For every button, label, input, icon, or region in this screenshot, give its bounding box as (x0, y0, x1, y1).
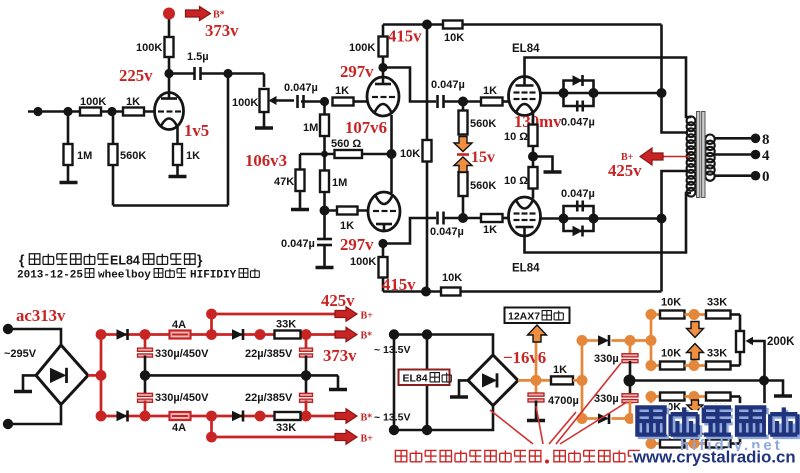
svg-text:33K: 33K (707, 348, 727, 360)
svg-text:0.047µ: 0.047µ (561, 117, 595, 129)
svg-text:4A: 4A (172, 422, 186, 434)
svg-text:0.047µ: 0.047µ (284, 82, 318, 94)
svg-text:B+: B+ (361, 434, 374, 445)
svg-text:0: 0 (762, 169, 770, 185)
svg-text:225v: 225v (119, 66, 153, 85)
svg-text:EL84: EL84 (512, 43, 540, 55)
svg-text:425v: 425v (321, 291, 355, 310)
svg-text:22µ/385V: 22µ/385V (245, 348, 293, 360)
svg-text:560K: 560K (120, 150, 146, 162)
svg-text:12AX7: 12AX7 (508, 311, 540, 323)
svg-text:wheelboy: wheelboy (98, 270, 151, 282)
svg-text:EL84: EL84 (512, 263, 540, 275)
svg-text:330µ: 330µ (594, 393, 619, 405)
svg-text:330µ: 330µ (594, 353, 619, 365)
svg-text:100K: 100K (350, 256, 376, 268)
svg-text:1M: 1M (303, 122, 318, 134)
svg-text:0.047µ: 0.047µ (281, 238, 315, 250)
svg-text:2013-12-25: 2013-12-25 (17, 270, 83, 282)
svg-text:~ 13.5V: ~ 13.5V (374, 344, 411, 356)
svg-text:ac313v: ac313v (16, 306, 66, 325)
svg-text:0.047µ: 0.047µ (431, 79, 465, 91)
svg-text:~295V: ~295V (4, 348, 37, 360)
svg-text:33K: 33K (276, 319, 296, 331)
svg-text:EL84: EL84 (403, 373, 428, 385)
svg-text:1K: 1K (553, 364, 567, 376)
svg-text:~ 13.5V: ~ 13.5V (374, 412, 411, 424)
svg-text:10K: 10K (400, 148, 420, 160)
svg-text:425v: 425v (608, 161, 642, 180)
svg-text:297v: 297v (340, 235, 374, 254)
svg-text:107v6: 107v6 (345, 118, 387, 137)
svg-text:1K: 1K (186, 150, 200, 162)
svg-text:−16v6: −16v6 (503, 348, 546, 367)
svg-text:0.047µ: 0.047µ (430, 226, 464, 238)
svg-text:1M: 1M (77, 150, 92, 162)
svg-text:1.5µ: 1.5µ (187, 51, 209, 63)
svg-text:10K: 10K (444, 32, 464, 44)
svg-text:B*: B* (361, 413, 373, 424)
svg-text:373v: 373v (205, 21, 239, 40)
svg-text:100K: 100K (136, 42, 162, 54)
svg-text:15v: 15v (471, 149, 495, 166)
svg-text:373v: 373v (323, 346, 357, 365)
svg-text:560K: 560K (470, 118, 496, 130)
svg-text:22µ/385V: 22µ/385V (245, 392, 293, 404)
svg-text:100K: 100K (349, 42, 375, 54)
svg-text:4A: 4A (172, 319, 186, 331)
svg-text:8: 8 (762, 132, 770, 148)
svg-text:10K: 10K (661, 297, 681, 309)
svg-text:0.047µ: 0.047µ (561, 188, 595, 200)
svg-text:1K: 1K (126, 96, 140, 108)
svg-text:560 Ω: 560 Ω (331, 138, 361, 150)
svg-text:B*: B* (213, 10, 225, 21)
svg-text:297v: 297v (340, 62, 374, 81)
svg-text:B*: B* (361, 331, 373, 342)
svg-text:10 Ω: 10 Ω (504, 131, 528, 143)
svg-text:106v3: 106v3 (245, 151, 287, 170)
svg-text:33K: 33K (276, 422, 296, 434)
svg-text:1v5: 1v5 (184, 121, 209, 140)
svg-text:1K: 1K (483, 85, 497, 97)
svg-text:330µ/450V: 330µ/450V (155, 348, 209, 360)
svg-text:www.crystalradio.cn: www.crystalradio.cn (632, 448, 796, 467)
svg-text:10K: 10K (661, 348, 681, 360)
svg-text:1K: 1K (483, 224, 497, 236)
svg-text:560K: 560K (470, 180, 496, 192)
svg-text:100K: 100K (80, 96, 106, 108)
svg-text:4: 4 (762, 148, 770, 164)
svg-text:415v: 415v (382, 275, 416, 294)
svg-text:33K: 33K (707, 297, 727, 309)
svg-text:EL84: EL84 (110, 254, 140, 268)
svg-text:1K: 1K (340, 220, 354, 232)
svg-text:HIFIDIY: HIFIDIY (190, 270, 237, 282)
svg-text:47K: 47K (274, 176, 294, 188)
svg-text:4700µ: 4700µ (548, 395, 579, 407)
svg-text:330µ/450V: 330µ/450V (155, 392, 209, 404)
svg-text:200K: 200K (767, 336, 795, 348)
svg-text:100K: 100K (232, 97, 258, 109)
svg-text:}: } (197, 252, 203, 268)
svg-text:1M: 1M (332, 177, 347, 189)
svg-text:B+: B+ (361, 311, 374, 322)
svg-text:{: { (19, 252, 25, 268)
svg-text:1K: 1K (335, 85, 349, 97)
svg-text:10 Ω: 10 Ω (504, 175, 528, 187)
svg-text:415v: 415v (388, 27, 422, 46)
svg-text:10K: 10K (442, 272, 462, 284)
